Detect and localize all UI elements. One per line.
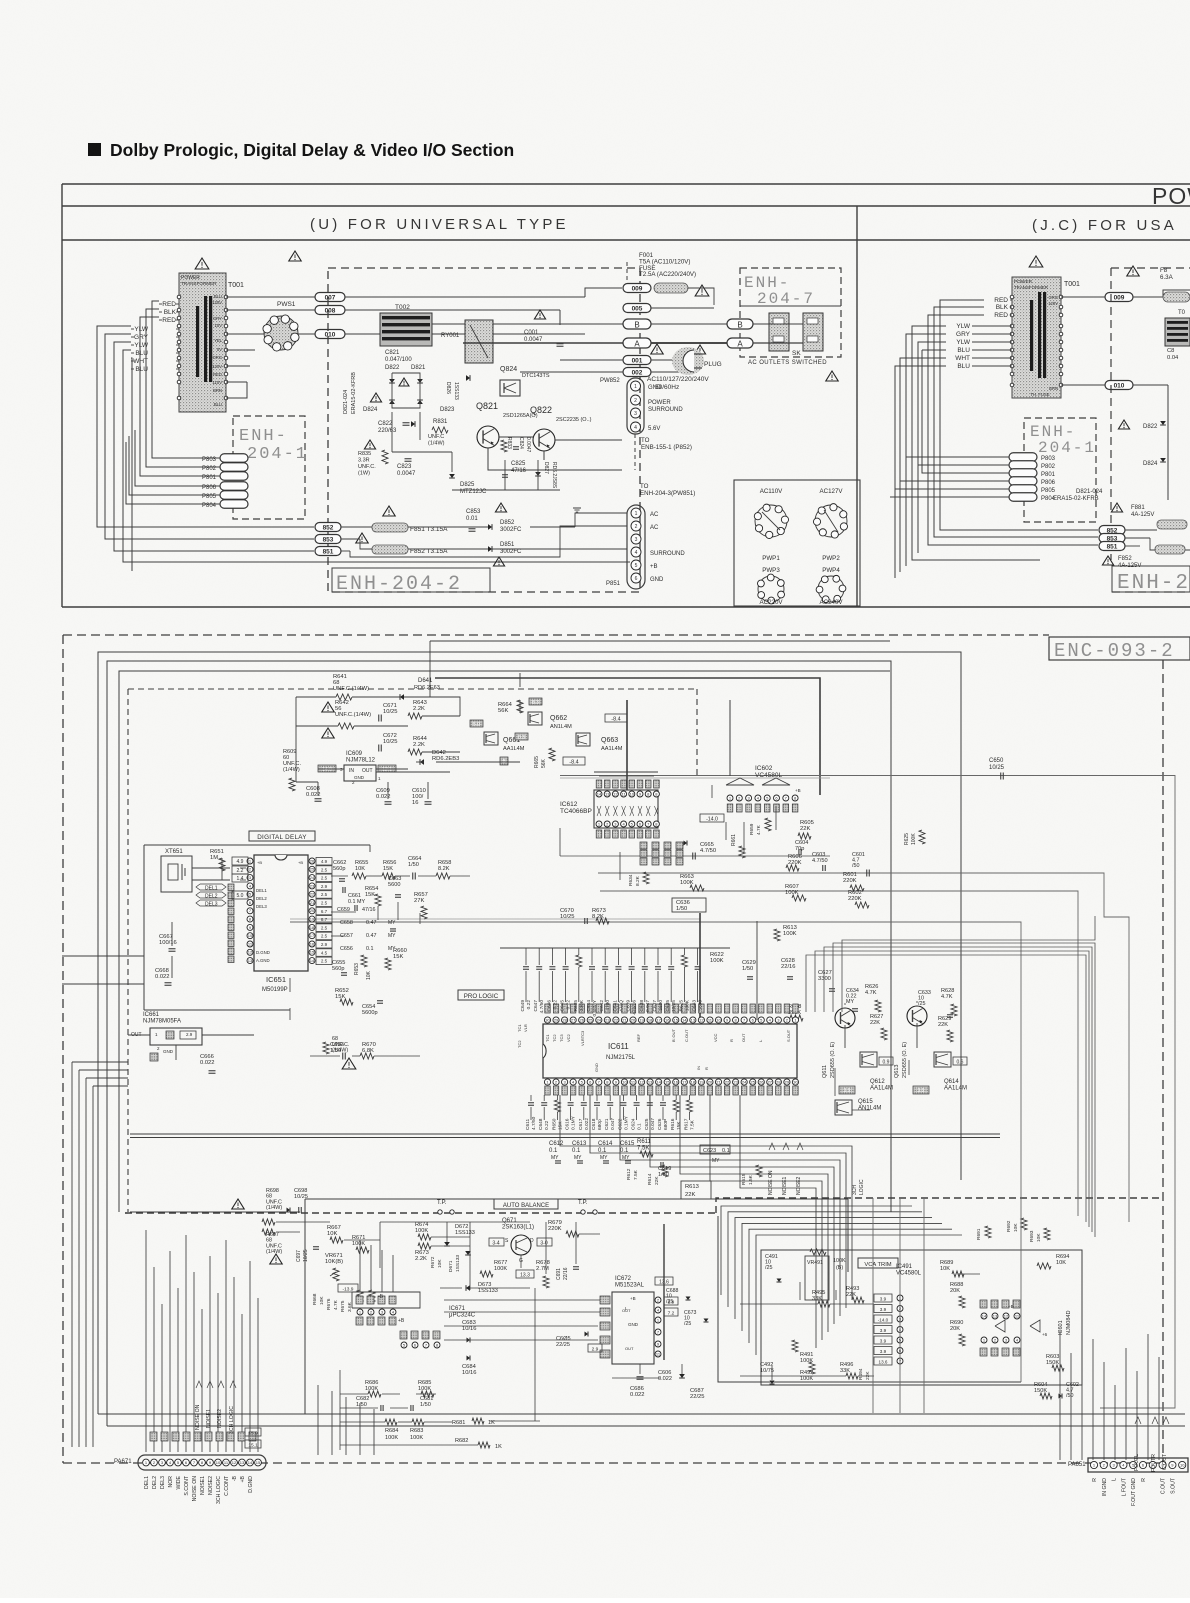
- connector B1: [623, 319, 651, 329]
- paper noise overlay: [0, 0, 1, 1]
- title bullet square: [88, 143, 101, 156]
- wires label to transformer: [176, 303, 179, 305]
- C627 capacitor sym: [829, 988, 835, 990]
- C684 capacitor: [467, 1356, 471, 1361]
- warning triangle IC661: [342, 1058, 356, 1069]
- D642 zener: [420, 759, 424, 765]
- IC671 riser wires: [359, 1240, 361, 1292]
- connector P802 JC: [1009, 461, 1037, 470]
- IC602 box -14.0: [700, 814, 724, 822]
- ENH-204-2 label box: [332, 568, 490, 592]
- nested wires upper VCA staircase: [721, 1206, 912, 1295]
- auto balance wires: [130, 1211, 300, 1213]
- IC651 right value boxes: [316, 858, 332, 866]
- IC491 pin stack: [874, 1294, 892, 1302]
- header underline left: [62, 239, 857, 241]
- connector P801: [220, 472, 248, 481]
- C628 capacitor sym: [787, 976, 793, 978]
- bus above caps: [500, 947, 730, 949]
- inner dashed bottom: [125, 1212, 716, 1214]
- outer wire loop 1: [98, 652, 961, 1414]
- connector 002: [623, 368, 651, 377]
- power transformer T001: [179, 273, 226, 412]
- top header line: [62, 205, 1190, 207]
- IC651 value boxes left: [232, 857, 248, 865]
- C629 capacitor sym: [747, 976, 753, 978]
- DIGITAL DELAY label: [249, 831, 315, 841]
- wires 852 row: [341, 526, 372, 528]
- JC dashed box edge: [1111, 267, 1190, 269]
- warning triangle D851: [493, 557, 504, 566]
- warning triangle F881: [1111, 503, 1122, 512]
- D673 diode: [466, 1285, 470, 1291]
- value box 3.9b: [913, 1086, 929, 1094]
- auto balance outer box: [305, 1198, 848, 1200]
- wire x1021 extension: [1020, 1213, 1022, 1382]
- inner dashed box right: [696, 689, 698, 778]
- value box 3-4: [489, 1238, 504, 1246]
- C623 box label: [700, 1145, 730, 1154]
- Q662 transistor: [528, 712, 542, 725]
- wires around IC651: [144, 844, 370, 846]
- plug symbol: [672, 347, 704, 375]
- IC672 wires: [612, 1377, 660, 1379]
- IC601 pin cluster A: [980, 1300, 987, 1308]
- VCA trim box: [761, 1250, 1082, 1385]
- outer wire loop 3: [119, 671, 890, 1212]
- wires diodes to P851: [470, 526, 488, 528]
- D825 zener: [449, 474, 455, 478]
- heavy vertical left of IC672: [663, 1224, 665, 1360]
- ENH-204-7 dashed box: [740, 268, 841, 357]
- long horizontal wire A: [560, 776, 1175, 1409]
- VCA TRIM label: [858, 1258, 898, 1268]
- connector P805: [220, 491, 248, 500]
- transistor cluster wires: [844, 1003, 846, 1005]
- wires PA651 risers: [1059, 1330, 1061, 1460]
- value box -8.4 a: [605, 714, 627, 722]
- value box 2.9b: [588, 1344, 602, 1352]
- IC651 delay IC: [254, 855, 308, 971]
- connector P806: [220, 482, 248, 491]
- connector 851 JC: [1099, 542, 1125, 551]
- value box 5.0: [470, 720, 483, 727]
- C633 capacitor sym: [947, 1014, 953, 1016]
- value box 3.9a: [839, 1086, 855, 1094]
- wires 009 010 JC: [1061, 296, 1105, 298]
- outer wire loop 2: [107, 661, 891, 1426]
- connector 007: [315, 293, 345, 302]
- warning triangle R697: [270, 1254, 282, 1264]
- wires below auto balance box: [317, 1385, 319, 1455]
- connector 853: [315, 535, 341, 544]
- warning triangle R642b: [322, 728, 334, 738]
- Q612 transistor: [860, 1052, 877, 1067]
- C634 capacitor sym: [852, 1008, 858, 1010]
- long bottom wires: [98, 1413, 1185, 1415]
- value box 13.3: [516, 1270, 534, 1278]
- wires to P80x: [152, 430, 220, 458]
- PRO LOGIC label: [458, 990, 504, 1000]
- warning triangle F852: [356, 533, 368, 543]
- connector A2: [727, 338, 753, 348]
- wires to P80x JC: [906, 456, 1009, 458]
- IC601 pin cluster B: [981, 1337, 987, 1343]
- heavy vertical wires mid: [626, 700, 628, 790]
- VCA wires: [740, 1303, 818, 1305]
- connector P803: [220, 454, 248, 463]
- D851 diode: [488, 546, 492, 552]
- auto balance lower wires: [340, 1393, 368, 1395]
- connector 010: [315, 330, 345, 339]
- ground symbol near D851: [573, 507, 581, 509]
- connector P801 JC: [1009, 469, 1037, 478]
- IC601 arrows: [995, 1320, 1005, 1332]
- connector 851: [315, 547, 341, 556]
- warning triangle F801 JC: [1127, 266, 1139, 276]
- warning triangle outlet2: [694, 345, 705, 354]
- R613 22K box: [681, 1181, 711, 1199]
- value box 2.9 ic672: [664, 1297, 678, 1305]
- dashed stub below PW852: [634, 434, 636, 470]
- VR491 pot: [810, 1249, 826, 1255]
- IC612 wires: [594, 771, 658, 773]
- fuse body F852 JC: [1155, 545, 1185, 554]
- AC outlet 2: [803, 313, 823, 351]
- regulator wires: [318, 768, 344, 770]
- top area wires: [352, 696, 400, 698]
- IC651 left hatch boxes: [228, 884, 234, 891]
- connector 008: [315, 306, 345, 315]
- value box 8.3: [529, 698, 542, 705]
- value box Q612: [879, 1057, 893, 1065]
- heavy vertical below C636: [699, 913, 701, 1020]
- value box -8.4 b: [563, 757, 585, 765]
- fuse F851: [372, 523, 408, 532]
- ENC dashed border: [63, 634, 1049, 636]
- value box B: [500, 757, 508, 765]
- warning triangle 001: [651, 344, 663, 354]
- connector 852 JC: [1099, 526, 1125, 535]
- connector 853 JC: [1099, 534, 1125, 543]
- warning triangle R698: [232, 1199, 244, 1209]
- value box 0.3: [515, 733, 528, 740]
- inner dashed jog: [716, 1198, 1160, 1213]
- Q663 transistor: [576, 733, 590, 746]
- IC612 body: [594, 790, 658, 828]
- P851 connector: [627, 505, 645, 589]
- JC left bus wires: [940, 300, 1098, 530]
- wire bundle below IC611: [560, 1095, 852, 1300]
- IC602 pins: [726, 778, 754, 785]
- VCA outer wire loop: [718, 1216, 1021, 1382]
- value box 0.6: [953, 1057, 967, 1065]
- connector P803 JC: [1009, 453, 1037, 462]
- T001 pin circles: [177, 295, 181, 299]
- warning triangle F851: [383, 506, 395, 516]
- value box 3-0: [537, 1238, 552, 1246]
- warning triangle R835: [364, 440, 375, 449]
- wire bundle IC611 top right: [806, 955, 1086, 1222]
- B+ rail top: [430, 640, 890, 642]
- warning triangle F001: [695, 285, 709, 296]
- warning triangle F852 JC: [1102, 556, 1113, 565]
- dashed wire x627: [626, 262, 628, 283]
- value box -13.9: [338, 1284, 358, 1292]
- connector 009 JC: [1105, 293, 1133, 302]
- VCA right wires: [958, 1273, 980, 1275]
- IC611 body: [543, 1024, 797, 1078]
- warning triangle bridge: [370, 393, 381, 402]
- long horizontal wire B: [560, 855, 830, 857]
- long horizontal wire C2: [600, 891, 1078, 1216]
- wires B A to right ovals: [651, 323, 728, 325]
- header underline right: [857, 239, 1190, 241]
- T001 JC pins: [1010, 295, 1014, 299]
- long horizontal wire D: [290, 922, 1021, 1213]
- wires 85x JC: [1125, 529, 1157, 531]
- IC671 pin cluster B: [400, 1331, 407, 1339]
- value box 7.2: [664, 1308, 678, 1316]
- warning triangle above T001 JC: [1029, 256, 1043, 267]
- inner dashed box left: [127, 689, 129, 1212]
- C636 box label: [672, 898, 706, 912]
- connector B2: [727, 319, 753, 329]
- connector P804: [220, 500, 248, 509]
- IC602 wires: [711, 785, 713, 798]
- fuse F852: [372, 545, 408, 554]
- PA671 hatch boxes above: [150, 1432, 157, 1441]
- section divider: [856, 206, 858, 607]
- IC611 top pins: [544, 1017, 550, 1023]
- IC672 to IC671 wires: [444, 1299, 600, 1301]
- IC612 stacked boxes: [640, 842, 647, 849]
- warning triangle PWS1: [289, 251, 301, 261]
- connector P802: [220, 463, 248, 472]
- top section outer frame: [62, 183, 1190, 185]
- value box 15.1: [245, 1440, 261, 1448]
- connector 005: [623, 304, 651, 313]
- extra vertical wires right mid: [872, 1198, 874, 1413]
- warning triangle bridge2: [399, 378, 409, 386]
- left bus wires: [152, 301, 159, 430]
- connector 009: [623, 284, 651, 293]
- AUTO BALANCE label: [494, 1199, 558, 1209]
- Q613 transistor: [907, 1006, 927, 1026]
- value box 15.9: [245, 1428, 261, 1436]
- Q661 transistor: [484, 732, 498, 745]
- IC671 pin cluster A: [356, 1296, 363, 1304]
- warning triangle D852: [495, 503, 506, 512]
- warning triangle R642: [322, 702, 334, 712]
- long horizontal wire E: [130, 1133, 1000, 1135]
- Q614 transistor: [934, 1052, 951, 1067]
- ENH-204-1 JC dashed box: [1024, 418, 1096, 522]
- wires 007 008 to right: [345, 296, 585, 298]
- voltage selector box: [734, 480, 860, 606]
- wires IC661: [128, 1034, 150, 1036]
- outlet wires: [753, 323, 803, 325]
- wires Q821 Q822 area: [432, 323, 465, 325]
- IC611 bottom pins: [544, 1079, 550, 1085]
- connector A1: [623, 338, 651, 348]
- ENH-204-2 dashed box: [328, 268, 640, 592]
- delay cluster wires: [331, 875, 348, 877]
- left bus wires to PA671: [71, 1062, 73, 1447]
- Q611 transistor: [835, 1008, 855, 1028]
- connector P805 JC: [1009, 485, 1037, 494]
- connector P804 JC: [1009, 493, 1037, 502]
- JC dashed box bottom: [1112, 591, 1190, 593]
- warning triangle above T001: [195, 258, 209, 269]
- vertical wires into PA671: [145, 1230, 147, 1452]
- fuse body F001: [654, 283, 688, 293]
- wires transformer to plugs: [226, 296, 315, 298]
- connector P806 JC: [1009, 477, 1037, 486]
- ENH-2 JC label box: [1112, 566, 1190, 592]
- heavy sub-circuit box: [435, 678, 820, 795]
- Q615 transistor: [835, 1100, 852, 1115]
- connector 001: [623, 356, 651, 365]
- ENH-204-1 dashed box: [233, 416, 305, 519]
- connector 852: [315, 523, 341, 532]
- long horizontal wire C: [598, 873, 1129, 1222]
- connector 010 JC: [1105, 381, 1133, 390]
- R684 R683 resistors: [385, 1419, 397, 1425]
- warning triangle JC bridge: [1118, 420, 1129, 429]
- fuse body JC: [1163, 292, 1190, 302]
- warning triangle C001: [534, 310, 545, 319]
- power transformer T001 JC: [1012, 277, 1061, 398]
- ENC-093-2 label box: [1049, 637, 1190, 660]
- warning triangle outlets: [826, 371, 838, 381]
- value box 13.6: [655, 1277, 673, 1285]
- D852 diode: [488, 524, 492, 530]
- AC outlet 1: [769, 313, 789, 351]
- fuse body F881: [1157, 520, 1187, 529]
